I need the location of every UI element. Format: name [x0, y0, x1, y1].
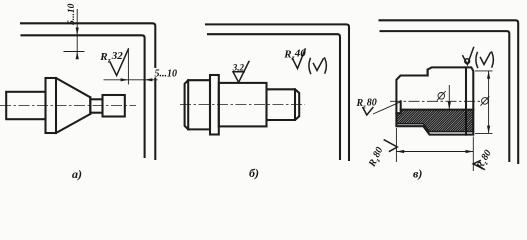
frame inner line, figure b — [208, 34, 340, 159]
frame inner line, figure v — [381, 31, 510, 161]
svg-text:б): б) — [249, 166, 259, 180]
svg-text:R: R — [283, 49, 291, 61]
frame outer line, figure v — [380, 20, 519, 163]
svg-text:а): а) — [72, 167, 82, 181]
chamfer line on left cylinder, figure b — [187, 80, 189, 129]
left cylinder with chamfers, figure b — [185, 80, 210, 129]
middle cylinder, figure b — [219, 83, 267, 127]
hatch bottom edge lines, figure v — [396, 124, 473, 132]
roughness symbol left Rz80, figure v — [363, 108, 373, 116]
svg-text:5...10: 5...10 — [67, 3, 77, 25]
bushing outer outline (half section), figure v — [396, 67, 473, 134]
roughness value Rz32, figure a — [99, 50, 123, 64]
right cylinder with end chamfers, figure b — [267, 89, 300, 120]
dimension 5...10 vertical (frame to symbol), figure a — [67, 3, 79, 59]
counterbore face line, figure v — [396, 101, 400, 113]
bore line (section), figure v — [401, 109, 474, 111]
frame outer line, figure b — [206, 24, 349, 160]
svg-text:32: 32 — [111, 50, 124, 62]
centerline of stepped shaft, figure b — [180, 104, 305, 106]
frame inner line (drawing frame), figure a — [22, 35, 145, 157]
svg-text:R: R — [99, 51, 107, 63]
centerline of bushing, figure v — [390, 100, 481, 102]
centerline of shaft, figure a — [0, 105, 136, 107]
shaft cone, figure a — [56, 78, 90, 133]
bottom length dimension, figure v — [396, 128, 473, 171]
shaft neck, figure a — [90, 99, 102, 112]
rotated roughness Rz80 bottom left, figure v — [366, 140, 397, 170]
roughness symbol (check mark), figure a — [110, 49, 128, 76]
collar, figure b — [210, 75, 219, 135]
chamfer line on right cylinder, figure b — [294, 89, 296, 120]
diameter sign on bore leader, figure v — [437, 91, 446, 101]
corner symbol: check with circle (as-is surfaces), figure v — [463, 48, 474, 65]
shaft right cylinder, figure a — [103, 95, 125, 117]
extension line dropping from symbol, figure a — [127, 49, 129, 85]
bore diameter leader with arrow, figure v — [448, 85, 451, 110]
chamfer line near right face, figure v — [465, 67, 467, 134]
outside diameter dimension right, figure v — [475, 71, 493, 133]
step vertical line upper, figure v — [427, 70, 429, 76]
svg-text:в): в) — [413, 167, 422, 181]
roughness symbol (check mark) Rz40, figure b — [292, 49, 305, 69]
dimension 5...10 horizontal (symbol to frame), figure a — [104, 68, 178, 81]
svg-text:3,2: 3,2 — [232, 62, 245, 72]
rotated roughness Rz80 bottom right, figure v — [473, 148, 495, 173]
shaft left cylinder, figure a — [6, 92, 45, 119]
roughness value Rz80 left, figure v — [356, 98, 377, 111]
svg-text:80: 80 — [479, 148, 494, 162]
roughness symbol with bar (machined), figure b — [233, 62, 249, 83]
frame outer line (sheet edge), figure a — [21, 23, 155, 159]
roughness value Rz40 corner, figure b — [283, 47, 306, 62]
diameter sign on right dimension, figure v — [481, 96, 490, 106]
svg-text:5...10: 5...10 — [155, 69, 178, 80]
parenthesized check symbol, figure v — [476, 52, 494, 68]
shaft flange, figure a — [46, 78, 57, 133]
svg-text:80: 80 — [367, 98, 377, 109]
extension line at symbol top level, figure a — [64, 51, 85, 53]
leader Rz80 to counterbore face, figure v — [373, 102, 401, 114]
section hatching, figure v — [325, 75, 527, 170]
svg-text:80: 80 — [371, 145, 385, 159]
parenthesized check symbol, figure b — [309, 58, 327, 74]
